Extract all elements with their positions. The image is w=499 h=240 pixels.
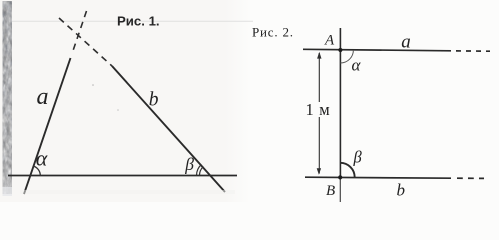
scan band fade bottom	[3, 187, 13, 196]
scan band dark speckles	[3, 1, 13, 194]
fig2 line b solid	[305, 177, 451, 178]
fig2 angle alpha arc	[340, 50, 353, 63]
svg-text:B: B	[326, 183, 335, 199]
fig2 point A	[338, 48, 342, 52]
fig2 vertical tail below B	[339, 179, 341, 202]
fig1 base line	[8, 175, 237, 177]
fig2 dimension line upper segment	[318, 53, 320, 102]
svg-text:Рис. 1.: Рис. 1.	[117, 14, 160, 29]
fig2 line a solid	[303, 49, 451, 51]
fig2 line b dashes	[457, 177, 484, 179]
svg-text:a: a	[401, 32, 411, 53]
fig2 dimension line lower segment	[318, 117, 320, 174]
speck 2	[117, 109, 119, 111]
fig1 angle alpha arc	[34, 166, 41, 175]
svg-text:α: α	[352, 55, 362, 74]
fig2 point B	[338, 175, 342, 179]
svg-text:a: a	[37, 84, 49, 110]
svg-text:Рис. 2.: Рис. 2.	[252, 25, 294, 40]
fig2 dimension arrow down	[317, 168, 321, 175]
svg-text:A: A	[324, 33, 335, 49]
fig1 line a dashed extension	[72, 11, 87, 55]
left figure paper tint	[0, 0, 250, 202]
fig1 line b dashed extension	[59, 18, 112, 66]
svg-text:b: b	[149, 89, 159, 110]
svg-text:β: β	[184, 154, 194, 174]
faint bottom smudge	[20, 190, 235, 194]
scan edge band	[3, 1, 13, 194]
fig1 line a solid	[24, 58, 71, 194]
speck 1	[92, 84, 94, 86]
fig1 line b solid	[112, 66, 225, 192]
fig1 angle beta double arc	[199, 167, 203, 176]
svg-text:b: b	[397, 181, 406, 200]
fig2 angle beta arc	[340, 163, 355, 178]
fig2 dimension arrow up	[317, 52, 321, 59]
fig2 line a dashes	[456, 50, 490, 52]
faint scan line	[12, 20, 253, 22]
fig2 vertical line AB	[339, 28, 341, 179]
svg-text:α: α	[36, 145, 48, 170]
svg-text:β: β	[353, 148, 363, 167]
